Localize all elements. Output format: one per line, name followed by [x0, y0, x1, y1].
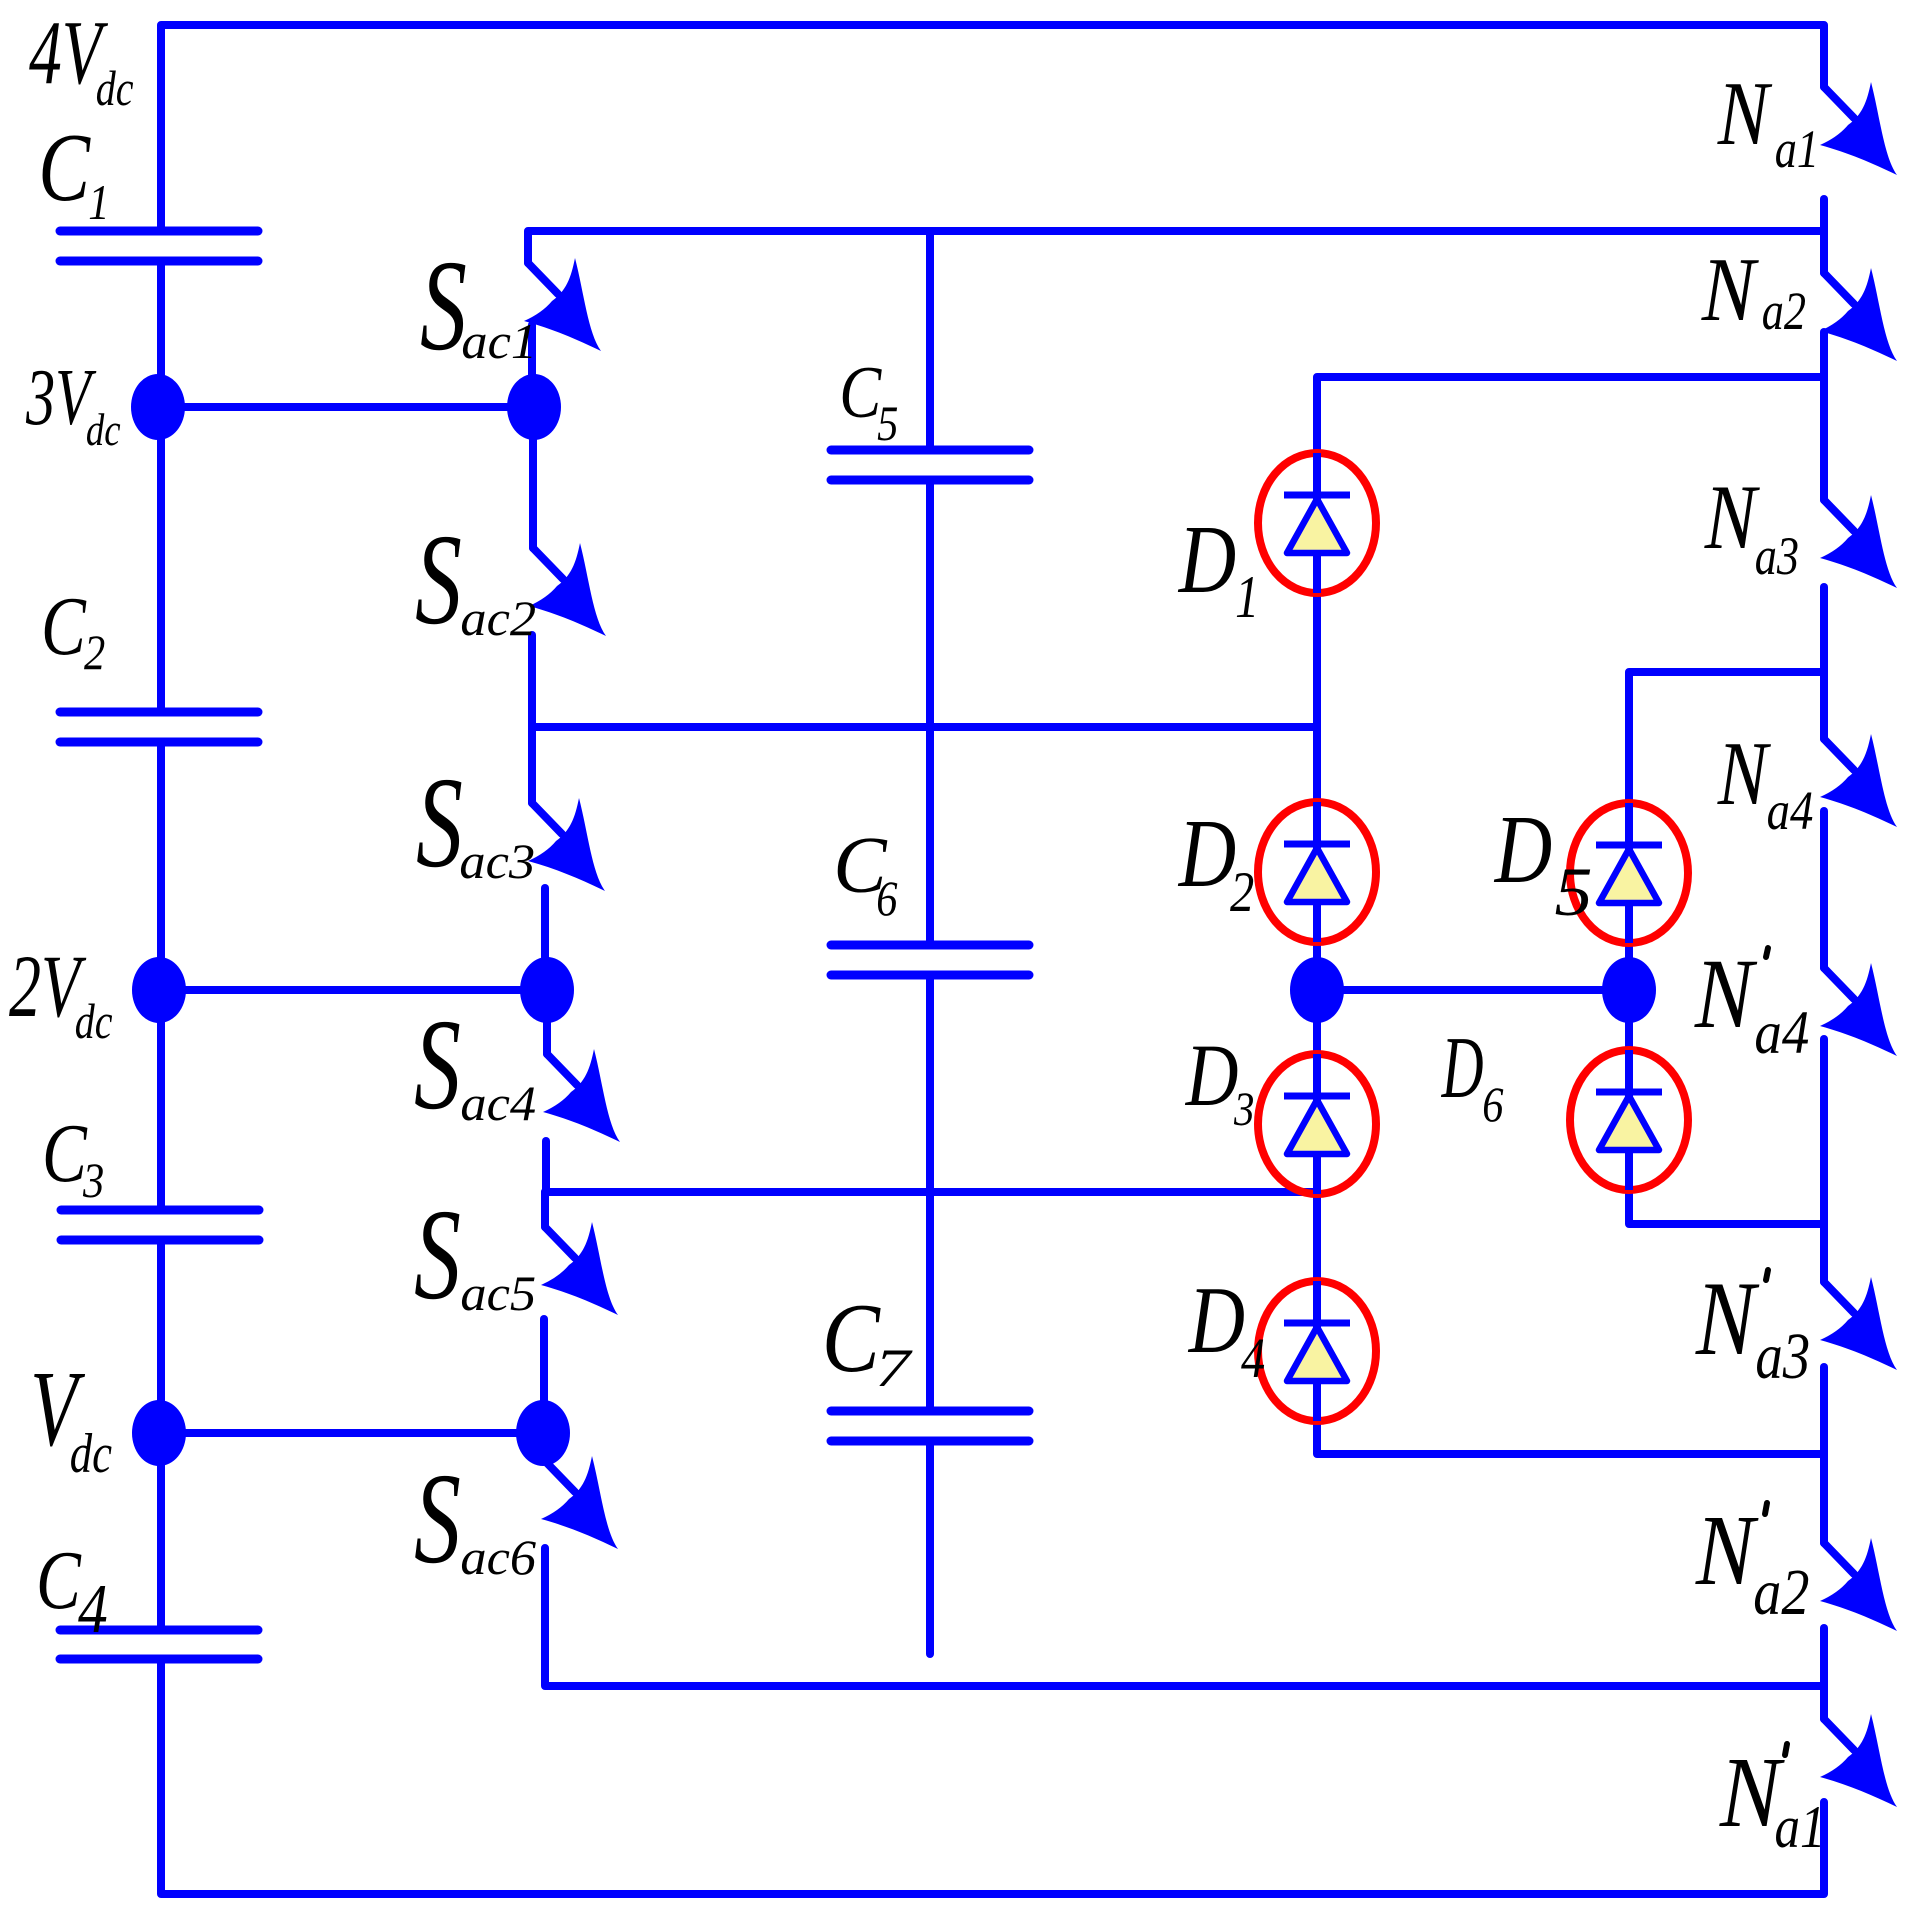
svg-text:4: 4 [78, 1571, 108, 1649]
svg-text:3: 3 [1233, 1082, 1254, 1136]
svg-text:a2: a2 [1753, 1556, 1809, 1629]
svg-text:N: N [1694, 939, 1758, 1050]
svg-text:6: 6 [1482, 1078, 1503, 1133]
svg-text:ac3: ac3 [459, 834, 535, 890]
svg-text:D: D [1185, 1025, 1239, 1125]
svg-text:N: N [1695, 1495, 1759, 1606]
svg-text:5: 5 [877, 397, 898, 452]
svg-text:ac6: ac6 [460, 1530, 536, 1586]
svg-text:a1: a1 [1775, 119, 1819, 179]
svg-text:N: N [1717, 64, 1772, 165]
svg-text:ac5: ac5 [460, 1266, 536, 1322]
svg-text:ac2: ac2 [460, 591, 536, 647]
svg-text:S: S [414, 1182, 461, 1327]
svg-text:D: D [1178, 801, 1236, 908]
svg-text:a4: a4 [1754, 998, 1809, 1066]
svg-text:C: C [822, 1284, 882, 1393]
svg-text:2: 2 [1230, 861, 1254, 923]
svg-text:2: 2 [84, 626, 105, 681]
svg-text:S: S [416, 750, 463, 895]
svg-text:a1: a1 [1775, 1794, 1826, 1861]
svg-text:5: 5 [1555, 853, 1593, 930]
svg-text:C: C [36, 1534, 82, 1627]
svg-text:dc: dc [70, 1422, 112, 1484]
svg-text:a3: a3 [1755, 526, 1799, 586]
svg-text:N: N [1695, 1261, 1760, 1378]
svg-text:dc: dc [75, 994, 113, 1049]
svg-text:a2: a2 [1762, 281, 1806, 341]
svg-text:3: 3 [82, 1154, 104, 1209]
svg-text:ac4: ac4 [460, 1076, 536, 1132]
svg-text:7: 7 [875, 1338, 913, 1398]
svg-text:S: S [415, 507, 462, 652]
svg-text:ac1: ac1 [461, 314, 537, 370]
svg-text:N: N [1717, 723, 1772, 824]
svg-text:N: N [1701, 239, 1760, 340]
svg-text:4: 4 [1241, 1327, 1265, 1389]
svg-text:dc: dc [86, 405, 121, 456]
svg-text:C: C [41, 580, 87, 673]
svg-text:D: D [1494, 797, 1552, 904]
svg-text:C: C [38, 114, 91, 221]
svg-text:S: S [414, 992, 461, 1137]
svg-text:D: D [1188, 1268, 1245, 1373]
svg-text:N: N [1704, 467, 1760, 569]
svg-text:C: C [42, 1107, 88, 1200]
svg-text:dc: dc [96, 61, 134, 116]
svg-text:D: D [1178, 507, 1236, 614]
svg-text:D: D [1441, 1020, 1484, 1117]
svg-text:6: 6 [876, 872, 897, 927]
svg-text:a4: a4 [1767, 782, 1814, 842]
svg-text:1: 1 [1235, 564, 1259, 630]
svg-text:S: S [414, 1446, 461, 1591]
svg-text:a3: a3 [1755, 1320, 1810, 1393]
svg-text:1: 1 [88, 176, 109, 231]
svg-text:C: C [839, 351, 882, 433]
svg-text:S: S [420, 233, 467, 378]
